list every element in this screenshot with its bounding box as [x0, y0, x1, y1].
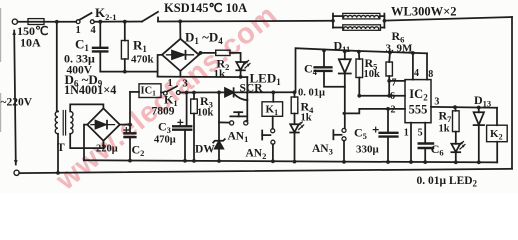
svg-text:1k: 1k — [439, 124, 450, 135]
svg-text:0. 01μ: 0. 01μ — [298, 88, 325, 99]
svg-text:1N4001×4: 1N4001×4 — [64, 83, 116, 97]
svg-text:7809: 7809 — [152, 106, 175, 118]
svg-text:10k: 10k — [364, 69, 381, 80]
svg-text:3: 3 — [183, 79, 188, 90]
svg-text:8: 8 — [428, 69, 433, 80]
svg-text:470k: 470k — [131, 54, 155, 66]
svg-text:1: 1 — [404, 127, 409, 138]
svg-text:220μ: 220μ — [96, 144, 118, 155]
svg-text:4: 4 — [91, 25, 97, 36]
svg-text:7: 7 — [392, 77, 397, 88]
svg-text:0. 33μ: 0. 33μ — [64, 52, 95, 66]
svg-text:T: T — [57, 142, 65, 154]
svg-text:2: 2 — [391, 104, 396, 115]
svg-text:10k: 10k — [197, 108, 214, 119]
svg-text:4: 4 — [414, 68, 419, 79]
svg-text:SCR: SCR — [240, 83, 264, 95]
svg-text:3. 9M: 3. 9M — [386, 43, 414, 55]
svg-text:DW: DW — [195, 144, 215, 156]
svg-text:KSD145℃ 10A: KSD145℃ 10A — [164, 1, 247, 15]
svg-text:5: 5 — [418, 128, 423, 139]
svg-text:D1 ~D4: D1 ~D4 — [185, 30, 223, 47]
svg-text:470μ: 470μ — [154, 135, 176, 146]
svg-text:3: 3 — [434, 97, 439, 108]
svg-text:1k: 1k — [301, 113, 312, 124]
svg-text:330μ: 330μ — [356, 144, 380, 156]
svg-text:0. 01μ LED2: 0. 01μ LED2 — [417, 175, 478, 189]
svg-text:1: 1 — [168, 78, 173, 89]
svg-text:1: 1 — [76, 25, 81, 36]
svg-text:6: 6 — [390, 91, 395, 102]
svg-text:WL300W×2: WL300W×2 — [391, 5, 456, 19]
svg-text:10A: 10A — [20, 36, 41, 50]
svg-text:1k: 1k — [214, 68, 227, 80]
svg-text:~220V: ~220V — [1, 97, 33, 109]
svg-text:555: 555 — [409, 103, 428, 117]
